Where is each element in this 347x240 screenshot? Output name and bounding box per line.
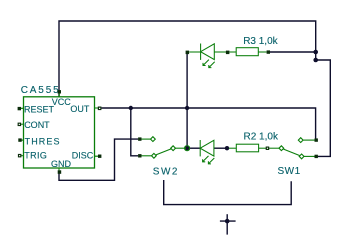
pin OUT stub (donut)	[95, 107, 102, 111]
wire OUT junction down to SW2 lower contact	[131, 108, 138, 156]
LED D1 right pad	[226, 51, 230, 55]
pin THRES stub	[18, 138, 23, 141]
junction dot OUT row right	[185, 106, 189, 110]
pin DISC stub	[95, 155, 102, 158]
wire R3 right terminal to right-rail junction	[270, 51, 316, 53]
wire vertical LED1 to OUT row to SW2 common	[186, 53, 188, 148]
switch SW1 lower pad	[315, 155, 318, 158]
switch SW2	[142, 137, 190, 159]
junction dot SW2 common	[185, 146, 189, 150]
svg-text:GND: GND	[51, 159, 72, 169]
pin CONT stub (donut)	[18, 123, 24, 127]
LED D1	[189, 44, 226, 68]
wire LED2 to R2 junction	[214, 147, 227, 149]
svg-text:RESET: RESET	[24, 105, 55, 115]
LED D2	[200, 140, 214, 164]
junction dot right rail lower	[313, 58, 318, 63]
svg-text:CA555: CA555	[21, 85, 61, 96]
resistor R2	[229, 144, 279, 152]
pin VCC (top) pad	[58, 90, 61, 97]
pin TRIG stub (donut)	[18, 154, 24, 158]
ground symbol	[220, 214, 236, 234]
resistor R3	[229, 48, 266, 56]
svg-text:OUT: OUT	[70, 104, 90, 114]
svg-text:R2 1,0k: R2 1,0k	[244, 132, 279, 143]
switch SW1	[279, 138, 315, 159]
pin GND (bottom) pad	[58, 168, 62, 174]
IC U1 CA555 body	[24, 97, 95, 168]
junction dot right rail upper	[313, 50, 318, 55]
wire bottom U between SW2 and SW1	[164, 180, 292, 205]
resistor R2 right pin donut	[266, 147, 270, 151]
wire GND pin to SW2 upper contact	[59, 139, 138, 180]
switch SW1 upper pad	[315, 138, 318, 141]
wire OUT row to SW1 upper contact	[101, 108, 315, 139]
junction dot LED2-R2	[225, 146, 229, 150]
svg-text:THRES: THRES	[25, 137, 61, 147]
svg-text:SW2: SW2	[153, 166, 179, 177]
pin RESET stub	[18, 107, 24, 110]
svg-text:TRIG: TRIG	[24, 151, 47, 161]
wire SW2 common to LED2	[189, 147, 201, 149]
junction dot OUT row left	[129, 106, 133, 110]
svg-text:R3 1,0k: R3 1,0k	[243, 36, 278, 47]
LED D1 left pad (junction)	[186, 51, 190, 55]
wire junction segment and branch to SW1 lower contact	[316, 52, 331, 156]
svg-text:DISC: DISC	[72, 151, 94, 161]
svg-text:VCC: VCC	[52, 97, 72, 107]
wire VCC: IC top to top rail to right rail	[59, 21, 316, 97]
switch SW2 lower pad	[138, 154, 141, 157]
resistor R3 right pad (junction)	[267, 50, 270, 53]
switch SW2 upper pad	[138, 137, 141, 140]
svg-text:CONT: CONT	[24, 120, 50, 130]
svg-text:SW1: SW1	[278, 166, 301, 177]
